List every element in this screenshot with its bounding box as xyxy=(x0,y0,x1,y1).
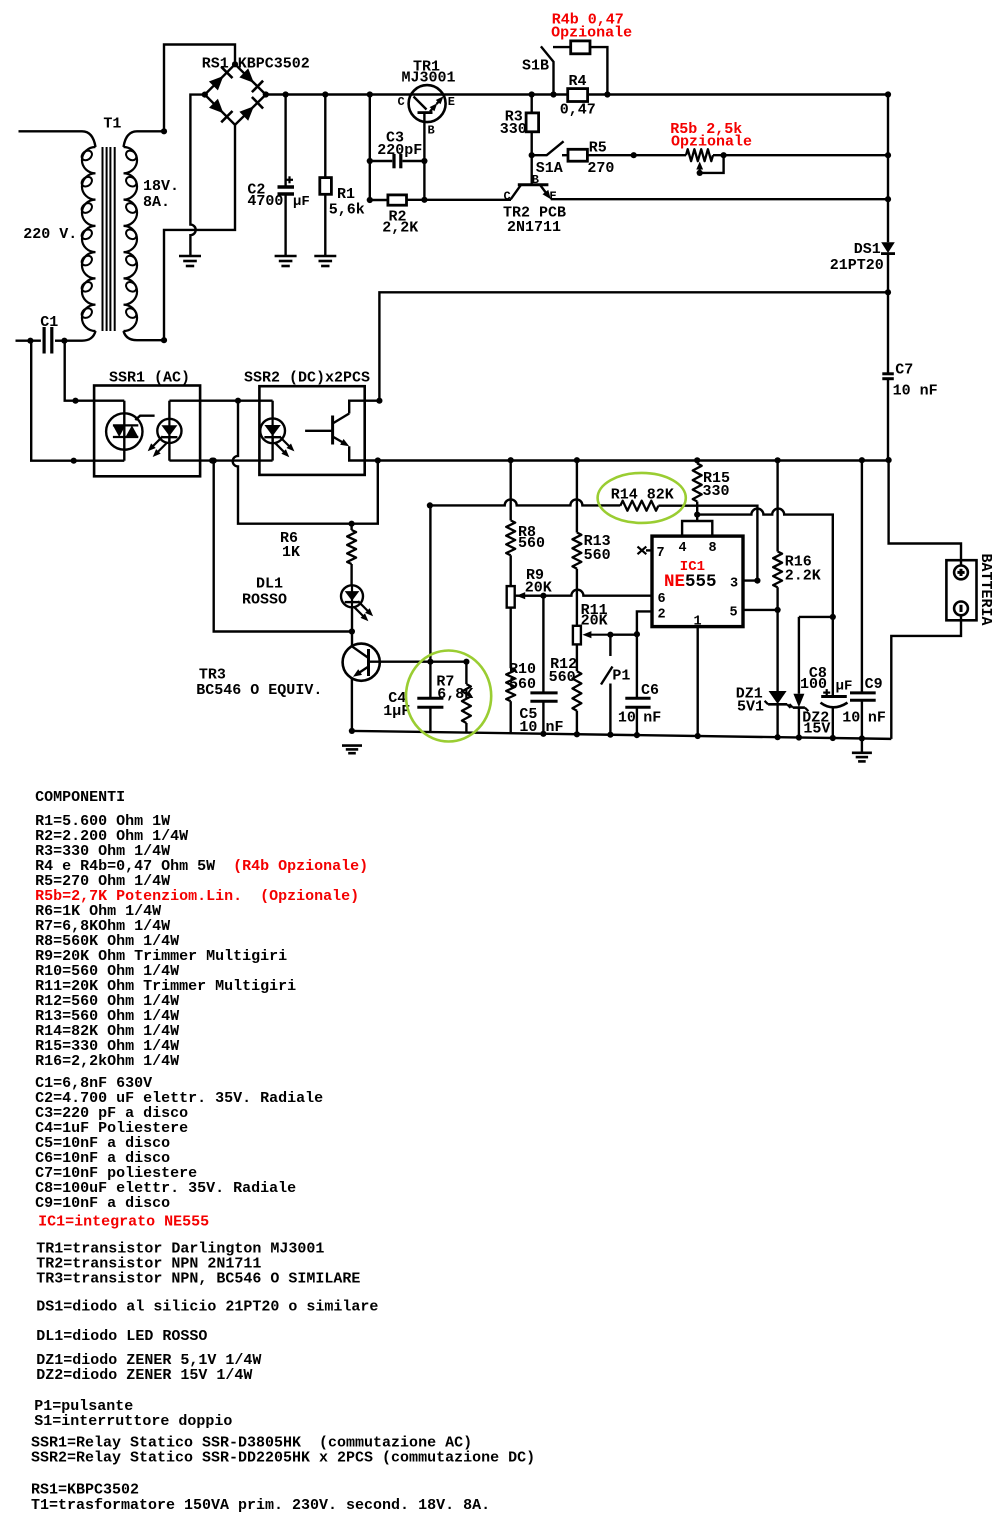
wire DZ2 bottom xyxy=(798,708,800,738)
wire C1 left xyxy=(16,340,41,342)
junction dot P1 rail xyxy=(607,732,613,738)
svg-text:C7: C7 xyxy=(895,361,913,378)
resistor R14 zigzag xyxy=(620,501,658,511)
svg-text:560: 560 xyxy=(509,676,536,693)
svg-text:560: 560 xyxy=(549,669,576,686)
wire C8 vertical xyxy=(832,617,834,696)
wire R13 top stub xyxy=(576,460,578,532)
svg-text:C: C xyxy=(504,190,511,204)
junction dot S1A xyxy=(529,152,535,158)
svg-text:NE555: NE555 xyxy=(664,572,717,592)
resistor R1 xyxy=(320,178,332,195)
junction dot C2 top xyxy=(283,91,289,97)
svg-text:nF: nF xyxy=(868,709,886,726)
svg-text:COMPONENTI: COMPONENTI xyxy=(35,789,125,806)
wire R15 bottom stub xyxy=(696,502,698,522)
svg-text:6,8K: 6,8K xyxy=(437,686,473,703)
svg-text:2: 2 xyxy=(658,608,666,623)
ground below R1 xyxy=(314,255,336,258)
svg-text:E: E xyxy=(550,190,557,204)
transformer T1 primary winding xyxy=(82,147,96,331)
wire mains to SSR1 bottom xyxy=(31,341,124,461)
bridge RS1 diode L-B xyxy=(209,99,223,113)
junction dot C3 branch top xyxy=(367,91,373,97)
svg-text:S1B: S1B xyxy=(522,58,549,75)
capacitor C4 xyxy=(417,697,443,700)
svg-text:21PT20: 21PT20 xyxy=(830,257,884,274)
svg-text:4: 4 xyxy=(679,541,687,556)
potentiometer R5b wiper loop xyxy=(700,155,724,173)
wire C3 left lead xyxy=(370,160,393,162)
junction dot P1 top xyxy=(607,632,613,638)
wire R5 to R5b xyxy=(587,154,686,156)
highlight ellipse R14 xyxy=(598,473,686,523)
capacitor C6 xyxy=(625,697,650,700)
resistor R15 zigzag xyxy=(693,463,702,501)
svg-text:BATTERIA: BATTERIA xyxy=(977,554,994,626)
resistor R12 zigzag xyxy=(572,671,581,711)
svg-text:10 nF: 10 nF xyxy=(893,382,938,399)
pin 6 wire with hop xyxy=(516,590,653,596)
svg-text:DL1=diodo LED ROSSO: DL1=diodo LED ROSSO xyxy=(36,1328,207,1345)
junction dot SSR1 bottom-in xyxy=(71,458,77,464)
wire SSR2 emitter out xyxy=(349,446,888,460)
led DL1 xyxy=(351,585,353,607)
svg-text:C: C xyxy=(398,95,405,109)
capacitor C3 xyxy=(392,154,395,168)
junction dot C1-right xyxy=(61,338,67,344)
svg-text:1: 1 xyxy=(694,615,702,630)
wire R1 top xyxy=(324,95,326,178)
wire SSR2-LED drop with hop xyxy=(233,401,378,524)
wire C6 vertical xyxy=(636,634,638,698)
junction dot C6 top xyxy=(634,631,640,637)
junction dot R5b wiper xyxy=(697,170,703,176)
wire R2 left lead xyxy=(370,199,388,201)
svg-text:6: 6 xyxy=(658,592,666,607)
capacitor C7 xyxy=(882,372,894,375)
junction dot pin5 xyxy=(775,607,781,613)
resistor R7 zigzag xyxy=(462,684,471,723)
junction dot C9 bottom xyxy=(859,735,865,741)
transistor TR3 emitter xyxy=(357,667,368,675)
trimmer R11 box xyxy=(573,626,581,645)
wire R9 to R10 xyxy=(510,608,512,669)
junction dot base-net top xyxy=(211,458,217,464)
wire R11 to R12 xyxy=(576,644,578,671)
wire C3 right lead xyxy=(403,160,425,162)
wire R4b right xyxy=(590,47,607,94)
junction dot R2 right xyxy=(421,197,427,203)
wire net-A with hops xyxy=(430,499,620,505)
svg-text:R4: R4 xyxy=(569,73,587,90)
transistor TR2 emitter xyxy=(540,185,548,195)
svg-text:SSR2=Relay Statico SSR-DD2205H: SSR2=Relay Statico SSR-DD2205HK x 2PCS (… xyxy=(31,1450,535,1467)
svg-text:10: 10 xyxy=(842,709,860,726)
relay SSR2 box xyxy=(259,386,364,475)
wire C9 bottom xyxy=(861,700,863,738)
junction dot C9 rail-top xyxy=(859,457,865,463)
svg-text:ROSSO: ROSSO xyxy=(242,591,287,608)
wire bridge bottom to secondary-bottom xyxy=(164,125,235,340)
junction dot rail TR2 xyxy=(885,196,891,202)
junction dot 555 vcc xyxy=(694,511,700,517)
svg-text:µF: µF xyxy=(293,194,310,210)
junction dot R5b right xyxy=(721,152,727,158)
relay SSR1 box xyxy=(94,386,200,477)
svg-text:4700: 4700 xyxy=(247,193,283,210)
junction dot SSR1 top-in xyxy=(72,398,78,404)
svg-text:S1=interruttore doppio: S1=interruttore doppio xyxy=(34,1413,232,1430)
transformer T1 primary top lead wire xyxy=(19,131,96,147)
opto LED SSR2 xyxy=(272,418,274,443)
wire R4b left xyxy=(553,46,571,48)
zener DZ2 xyxy=(793,694,804,708)
wire mains to SSR1 top xyxy=(65,341,125,401)
capacitor C2 xyxy=(278,185,295,188)
svg-text:S1A: S1A xyxy=(536,160,563,177)
wire C7 to +rail xyxy=(887,379,889,461)
junction dot R5 right xyxy=(631,152,637,158)
wire C1 right xyxy=(55,340,66,342)
svg-text:330: 330 xyxy=(703,483,730,500)
wire R3 bottom xyxy=(531,132,533,155)
wire R15 top stub xyxy=(696,460,698,463)
wire R6 stub top xyxy=(350,524,352,530)
wire R1 bottom xyxy=(324,194,326,256)
wire C4 bottom xyxy=(429,707,431,732)
junction dot SSR2 emitter rail xyxy=(375,457,381,463)
svg-text:330: 330 xyxy=(500,121,527,138)
junction dot C6 rail xyxy=(634,732,640,738)
wire R2 right lead xyxy=(407,199,512,201)
wire S1A to R5 xyxy=(562,154,568,156)
wire R8 to R9 xyxy=(510,555,512,586)
resistor R16 zigzag xyxy=(773,552,782,588)
wire bridge left corner to ground (with hop) xyxy=(190,95,204,256)
svg-text:5V1: 5V1 xyxy=(737,699,764,716)
svg-text:220pF: 220pF xyxy=(377,142,422,159)
wire wiper net xyxy=(610,634,637,636)
svg-text:DZ2=diodo ZENER 15V 1/4W: DZ2=diodo ZENER 15V 1/4W xyxy=(36,1367,252,1384)
svg-text:DS1=diodo al silicio 21PT20 o: DS1=diodo al silicio 21PT20 o similare xyxy=(36,1298,378,1315)
transistor TR2 collector xyxy=(511,185,521,200)
trimmer R9 wiper arrow xyxy=(522,595,544,597)
wire secondary-top to bridge top xyxy=(164,45,235,132)
svg-text:nF: nF xyxy=(643,709,661,726)
svg-text:2,2K: 2,2K xyxy=(382,219,418,236)
resistor R5 xyxy=(568,149,587,161)
wire R8 top stub xyxy=(510,460,512,520)
transformer T1 secondary bottom lead wire xyxy=(124,331,165,340)
junction dot R15 rail xyxy=(694,457,700,463)
svg-text:IC1=integrato NE555: IC1=integrato NE555 xyxy=(38,1214,209,1231)
junction dot R8 rail xyxy=(508,457,514,463)
wire R12 bottom xyxy=(576,711,578,735)
bridge RS1 diode T-R xyxy=(239,68,254,83)
transformer T1 secondary top lead wire xyxy=(124,131,165,147)
junction dot S1B bottom xyxy=(550,91,556,97)
wire battery plus xyxy=(889,460,961,566)
junction dot C8 rail xyxy=(830,735,836,741)
junction dot C3 right xyxy=(421,158,427,164)
junction dot C1-left xyxy=(27,338,33,344)
wire TR1 base stem xyxy=(423,113,425,200)
junction dot bridge top xyxy=(232,61,238,67)
switch S1B xyxy=(541,46,554,94)
wire ground right stub xyxy=(861,738,863,752)
wire P1 top stub xyxy=(609,635,611,656)
wire R7 top stub xyxy=(465,662,467,684)
svg-text:R14 82K: R14 82K xyxy=(611,486,674,503)
svg-text:C1: C1 xyxy=(40,314,58,331)
capacitor C5 xyxy=(530,691,557,694)
junction dot net-A left xyxy=(427,502,433,508)
wire C2 top xyxy=(284,95,286,187)
ic IC1 NE555 box xyxy=(652,536,743,627)
svg-text:7: 7 xyxy=(657,546,665,561)
bridge RS1 diamond edges xyxy=(205,64,266,125)
svg-text:T1=trasformatore 150VA prim. 2: T1=trasformatore 150VA prim. 230V. secon… xyxy=(31,1497,490,1514)
svg-text:C9: C9 xyxy=(865,676,883,693)
svg-text:560: 560 xyxy=(584,547,611,564)
svg-text:2.2K: 2.2K xyxy=(785,568,821,585)
resistor R2 xyxy=(388,195,407,205)
svg-text:SSR2 (DC)x2PCS: SSR2 (DC)x2PCS xyxy=(244,370,370,387)
transistor TR3 base bar xyxy=(367,649,370,676)
svg-text:5: 5 xyxy=(730,606,738,621)
svg-text:8A.: 8A. xyxy=(143,194,170,211)
wire DZ1 bottom xyxy=(776,704,778,737)
svg-text:R16=2,2kOhm 1/4W: R16=2,2kOhm 1/4W xyxy=(35,1053,179,1070)
wire SSR2-collector net xyxy=(379,292,888,400)
wire base net to DL1-junction xyxy=(214,461,352,632)
wire R10 bottom xyxy=(510,701,512,733)
junction dot R12 rail xyxy=(574,731,580,737)
plus sign C2 xyxy=(286,179,293,181)
svg-text:TR3: TR3 xyxy=(199,666,226,683)
wire R7 bottom stub xyxy=(465,723,467,733)
transistor TR3 circle xyxy=(343,644,380,681)
junction dot C8 top xyxy=(830,614,836,620)
transistor TR1 circle xyxy=(409,85,446,122)
svg-text:SSR1 (AC): SSR1 (AC) xyxy=(109,370,190,387)
wire net-B with hops xyxy=(697,509,833,617)
junction dot R13 rail xyxy=(574,457,580,463)
junction dot DZ1 rail xyxy=(775,734,781,740)
battery plus terminal xyxy=(954,566,968,580)
junction dot DL1 bottom xyxy=(349,628,355,634)
wire DZ2 top horiz xyxy=(799,616,833,618)
svg-text:RS1=KBPC3502: RS1=KBPC3502 xyxy=(31,1481,139,1498)
svg-text:B: B xyxy=(428,124,435,138)
svg-text:220 V.: 220 V. xyxy=(23,226,77,243)
junction dot C5 rail xyxy=(540,731,546,737)
switch P1 blade xyxy=(601,667,613,685)
wire R16 top stub xyxy=(776,460,778,551)
switch S1A xyxy=(532,141,564,155)
potentiometer R5b wiper arrow xyxy=(699,166,701,173)
junction dot R3 top xyxy=(529,91,535,97)
svg-text:18V.: 18V. xyxy=(143,178,179,195)
resistor R4b xyxy=(571,41,590,54)
wire SSR1-LED bottom to SSR2 xyxy=(169,459,272,461)
potentiometer R5b zigzag xyxy=(686,149,713,161)
junction dot bridge left xyxy=(202,92,208,98)
transformer T1 core xyxy=(102,147,104,331)
bridge RS1 diode B-R xyxy=(239,106,254,121)
wire C5 vertical xyxy=(542,596,544,693)
transistor TR1 internals xyxy=(414,97,427,110)
svg-text:RS1 KBPC3502: RS1 KBPC3502 xyxy=(202,56,310,73)
wire ground rail bottom xyxy=(352,731,891,739)
wire SSR2 collector out xyxy=(349,401,379,414)
transistor TR2 base bar xyxy=(518,183,549,186)
junction dot pin1 rail xyxy=(695,733,701,739)
resistor R3 xyxy=(526,113,539,132)
transistor TR3 collector xyxy=(352,646,369,658)
junction dot C3 left xyxy=(367,158,373,164)
svg-text:C6: C6 xyxy=(641,682,659,699)
wire C6 bottom xyxy=(636,707,638,735)
bridge RS1 diode L-T xyxy=(209,76,224,90)
ground below C2 xyxy=(275,255,297,258)
svg-text:DL1: DL1 xyxy=(256,575,283,592)
wire C5 bottom xyxy=(542,701,544,734)
svg-text:1K: 1K xyxy=(282,544,300,561)
svg-text:5,6k: 5,6k xyxy=(329,202,365,219)
wire C8 bottom xyxy=(832,708,834,739)
wire R13 to R11 xyxy=(576,569,578,626)
wire pins 4-8 bracket xyxy=(682,521,712,536)
junction dot secondary-top xyxy=(161,128,167,134)
svg-text:B: B xyxy=(532,173,539,187)
svg-text:270: 270 xyxy=(587,160,614,177)
pin 5 stub xyxy=(743,609,778,611)
junction dot R16 rail xyxy=(775,457,781,463)
wire P1 bottom stub xyxy=(609,684,611,735)
capacitor C8 xyxy=(821,695,847,698)
battery box xyxy=(946,560,976,620)
wire R5b to right rail xyxy=(713,154,888,156)
junction dot pin6-C5 xyxy=(540,593,546,599)
svg-text:20K: 20K xyxy=(581,613,608,630)
svg-text:E: E xyxy=(448,95,455,109)
diode DS1 xyxy=(881,242,895,253)
wire R16 to DZ1 xyxy=(776,587,778,691)
svg-text:TR3=transistor NPN, BC546 O SI: TR3=transistor NPN, BC546 O SIMILARE xyxy=(36,1270,360,1287)
trimmer R11 wiper arrow xyxy=(588,634,611,636)
wire SSR1-LED top to SSR2 xyxy=(169,400,272,402)
ground right xyxy=(852,751,872,754)
wire C2 bottom xyxy=(284,196,286,257)
junction dot SSR1-out bottom xyxy=(209,458,215,464)
wire TR3 base to R7 xyxy=(369,661,467,663)
resistor R6 zigzag xyxy=(347,530,356,564)
capacitor C9 xyxy=(850,691,876,694)
junction dot rail TR3 xyxy=(349,728,355,734)
opto LED SSR1 xyxy=(168,419,170,443)
pin 2 stub xyxy=(637,611,652,634)
transformer T1 secondary winding xyxy=(124,147,138,331)
wire battery minus xyxy=(891,614,961,739)
zener DZ1 xyxy=(769,691,787,704)
pin 1 stub xyxy=(697,627,699,736)
svg-text:20K: 20K xyxy=(525,580,552,597)
junction dot R2 left xyxy=(367,197,373,203)
resistor R4 xyxy=(568,89,588,102)
wire C9 vertical xyxy=(861,460,863,692)
junction dot C4 top xyxy=(427,659,433,665)
wire DZ2 top xyxy=(798,617,800,694)
svg-text:10: 10 xyxy=(519,719,537,736)
trimmer R9 box xyxy=(507,586,515,608)
svg-text:BC546 O EQUIV.: BC546 O EQUIV. xyxy=(196,682,322,699)
wire DS1 to C7 xyxy=(887,254,889,374)
wire main +V rail xyxy=(266,93,888,95)
svg-text:P1: P1 xyxy=(612,667,630,684)
wire TR3 emitter to ground xyxy=(351,679,353,732)
highlight circle R7 xyxy=(406,651,491,742)
battery minus terminal xyxy=(954,602,968,616)
junction dot battery rail xyxy=(886,457,892,463)
plus sign C8 xyxy=(823,691,830,693)
junction dot pin3 corner xyxy=(754,578,760,584)
svg-text:R1: R1 xyxy=(337,186,355,203)
wire R6 to DL1 xyxy=(350,564,352,585)
svg-text:C9=10nF a disco: C9=10nF a disco xyxy=(35,1195,170,1212)
resistor R10 zigzag xyxy=(506,668,515,701)
junction dot R6 top xyxy=(349,521,355,527)
wire S1A to TR2 base xyxy=(531,155,533,183)
junction dot R4b right xyxy=(604,91,610,97)
phototransistor SSR2 xyxy=(305,430,333,432)
wire R3 top xyxy=(531,95,533,113)
junction dot secondary-bottom xyxy=(161,337,167,343)
ground below bridge-left xyxy=(179,255,201,258)
transformer T1 primary bottom lead wire xyxy=(66,331,96,341)
wire right rail upper xyxy=(887,95,889,243)
junction dot bridge right xyxy=(263,91,269,97)
svg-text:0,47: 0,47 xyxy=(560,101,596,118)
junction dot rail R5b xyxy=(885,152,891,158)
svg-text:3: 3 xyxy=(730,577,738,592)
junction dot R7 top xyxy=(463,659,469,665)
wire TR2 emitter to right rail xyxy=(551,198,888,200)
wire R14 to R15 junction xyxy=(658,506,757,581)
svg-text:8: 8 xyxy=(709,541,717,556)
svg-text:100: 100 xyxy=(800,676,827,693)
svg-text:MJ3001: MJ3001 xyxy=(402,70,456,87)
svg-text:R5: R5 xyxy=(589,139,607,156)
svg-text:560: 560 xyxy=(518,535,545,552)
resistor R8 zigzag xyxy=(506,520,515,555)
junction dot DZ2 rail xyxy=(796,734,802,740)
junction dot SSR2 LED top branch xyxy=(235,398,241,404)
resistor R13 zigzag xyxy=(572,533,581,569)
svg-text:Opzionale: Opzionale xyxy=(551,25,632,42)
junction dot rail y292 xyxy=(885,289,891,295)
svg-text:15V: 15V xyxy=(803,720,830,737)
svg-text:Opzionale: Opzionale xyxy=(671,133,752,150)
capacitor C1 xyxy=(42,327,45,354)
junction dot SSR2 collector xyxy=(376,398,382,404)
svg-text:DS1: DS1 xyxy=(854,241,881,258)
svg-text:2N1711: 2N1711 xyxy=(507,219,561,236)
svg-text:10: 10 xyxy=(618,709,636,726)
triac SSR1 xyxy=(106,413,142,449)
junction dot rail right top xyxy=(885,91,891,97)
